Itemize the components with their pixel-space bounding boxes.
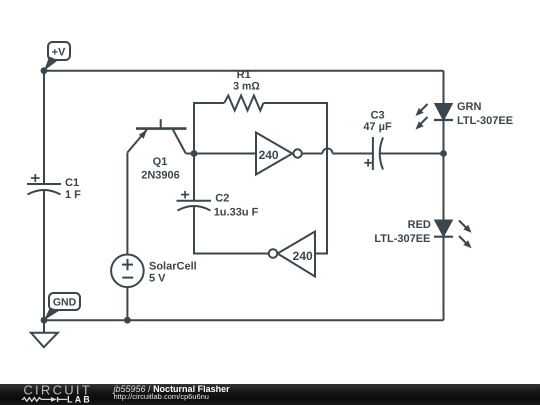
svg-text:GND: GND (53, 297, 77, 309)
svg-text:C2: C2 (215, 193, 229, 205)
svg-text:240: 240 (259, 148, 279, 162)
svg-text:LAB: LAB (67, 395, 92, 405)
svg-text:5 V: 5 V (149, 273, 166, 285)
svg-text:GRN: GRN (457, 101, 482, 113)
svg-text:Q1: Q1 (153, 156, 168, 168)
svg-text:R1: R1 (237, 69, 251, 81)
svg-text:3 mΩ: 3 mΩ (233, 81, 260, 93)
svg-text:240: 240 (293, 249, 313, 263)
svg-text:+V: +V (52, 47, 66, 59)
svg-text:1 F: 1 F (65, 189, 81, 201)
svg-text:C3: C3 (371, 109, 385, 121)
svg-text:LTL-307EE: LTL-307EE (374, 233, 430, 245)
svg-text:LTL-307EE: LTL-307EE (457, 115, 513, 127)
svg-text:C1: C1 (65, 177, 79, 189)
svg-text:RED: RED (408, 219, 431, 231)
svg-text:1u.33u F: 1u.33u F (214, 207, 259, 219)
svg-text:SolarCell: SolarCell (149, 261, 197, 273)
svg-text:47 µF: 47 µF (363, 121, 392, 133)
svg-text:2N3906: 2N3906 (141, 170, 180, 182)
